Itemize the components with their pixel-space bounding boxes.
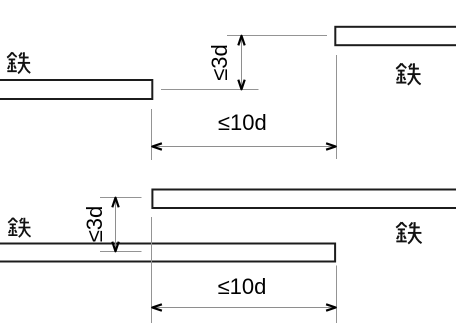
svg-text:≤3d: ≤3d [207, 44, 232, 81]
label 鉄 bottom-right [396, 222, 421, 244]
rebar bar top-right [335, 27, 456, 45]
extension line from top-left bar centerline [161, 89, 259, 91]
extension line below top-right bar [336, 55, 338, 159]
extension line below bottom-upper bar left edge [151, 217, 153, 323]
dimension line ≤10d (bottom diagram) [152, 304, 337, 310]
label 鉄 bottom-left [8, 218, 30, 237]
svg-text:≤3d: ≤3d [82, 206, 107, 243]
extension line from bottom-lower bar centerline [100, 251, 142, 253]
rebar bar bottom-lower (long) [0, 244, 335, 262]
dimension line ≤3d (top diagram) [238, 36, 244, 90]
label 鉄 top-right [396, 63, 420, 85]
rebar bar bottom-upper (long) [152, 190, 456, 209]
rebar bar top-left [0, 80, 152, 99]
dimension line ≤3d (bottom diagram) [112, 198, 118, 252]
extension line from top-right bar centerline [227, 35, 327, 37]
extension line below bottom-lower bar right edge [336, 266, 338, 324]
svg-text:≤10d: ≤10d [218, 274, 267, 299]
extension line below top-left bar [151, 109, 153, 160]
label 鉄 top-left [7, 52, 30, 73]
extension line from bottom-upper bar centerline [100, 197, 142, 199]
svg-text:≤10d: ≤10d [218, 110, 267, 135]
dimension line ≤10d (top diagram) [152, 143, 337, 149]
